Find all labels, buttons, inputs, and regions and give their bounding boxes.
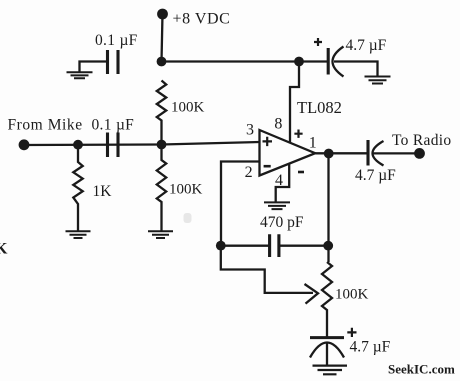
node junction 1K bbox=[73, 140, 83, 150]
capacitor C3 curved plate bbox=[333, 47, 344, 77]
label op-amp V+ mark bbox=[294, 130, 302, 138]
capacitor C2 0.1 uF plates bbox=[108, 133, 119, 158]
node top rail junction A bbox=[157, 57, 167, 67]
ground G6 bbox=[365, 77, 391, 84]
label op-amp V- mark bbox=[298, 171, 304, 174]
node top rail junction B bbox=[294, 57, 304, 67]
capacitor C1 0.1 uF plates bbox=[108, 50, 119, 74]
svg-text:0.1 µF: 0.1 µF bbox=[92, 117, 135, 134]
resistor R3 100K bbox=[157, 145, 166, 232]
wire cap C1 to ground bbox=[80, 62, 108, 72]
wire wiper path bbox=[221, 246, 313, 293]
capacitor C4 curved plate bbox=[373, 141, 384, 166]
svg-text:100K: 100K bbox=[169, 182, 203, 198]
label C5 plus bbox=[347, 328, 356, 337]
capacitor C6 470 pF plates bbox=[270, 234, 279, 257]
node feedback left junction bbox=[216, 241, 226, 251]
wire C4 to radio terminal bbox=[374, 152, 417, 154]
ground G1 bbox=[67, 72, 93, 78]
svg-text:0.1 µF: 0.1 µF bbox=[95, 32, 138, 49]
svg-text:K: K bbox=[0, 241, 8, 258]
node feedback junction bbox=[323, 241, 333, 251]
svg-text:470 pF: 470 pF bbox=[260, 214, 304, 231]
svg-text:4.7 µF: 4.7 µF bbox=[355, 167, 396, 184]
wire +8VDC down to top rail bbox=[162, 14, 163, 62]
wire output bbox=[315, 152, 368, 154]
svg-text:3: 3 bbox=[246, 122, 254, 139]
capacitor C5 4.7uF flat plate bbox=[310, 336, 344, 339]
wire feedback vertical bbox=[327, 154, 329, 263]
ground G3 bbox=[148, 231, 173, 238]
label op-amp noninverting + bbox=[263, 137, 273, 146]
svg-text:1K: 1K bbox=[93, 183, 113, 200]
wire C5 stem to ground bbox=[326, 343, 328, 365]
svg-text:From Mike: From Mike bbox=[8, 117, 83, 134]
svg-text:100K: 100K bbox=[171, 100, 205, 116]
capacitor C4 4.7uF flat plate bbox=[366, 140, 369, 166]
wire input row bbox=[24, 142, 260, 145]
svg-text:TL082: TL082 bbox=[297, 98, 342, 117]
svg-text:2: 2 bbox=[245, 164, 253, 181]
wire top rail right bbox=[162, 60, 329, 62]
svg-text:+8 VDC: +8 VDC bbox=[173, 11, 231, 28]
svg-text:SeekIC.com: SeekIC.com bbox=[388, 362, 455, 377]
label op-amp inverting - bbox=[264, 165, 271, 168]
label C3 plus bbox=[314, 38, 322, 46]
ground G4 bbox=[264, 202, 290, 209]
wire 470pF right bbox=[279, 245, 329, 247]
svg-text:100K: 100K bbox=[335, 287, 369, 303]
svg-text:4.7 µF: 4.7 µF bbox=[350, 339, 391, 356]
op-amp U1 triangle bbox=[260, 130, 316, 176]
node +8 VDC terminal bbox=[157, 9, 168, 20]
wiper arrowhead bbox=[305, 284, 319, 304]
resistor R4 100K pot bbox=[322, 262, 332, 337]
ground G2 bbox=[66, 231, 91, 238]
node output junction bbox=[324, 149, 334, 159]
ground G5 bbox=[313, 366, 348, 375]
svg-text:8: 8 bbox=[274, 116, 282, 133]
wire C3 to ground bbox=[334, 62, 378, 76]
node To Radio terminal bbox=[414, 148, 425, 159]
wire pin 4 to ground bbox=[276, 164, 290, 202]
wire pin 2 feedback left bbox=[221, 162, 260, 246]
resistor R2 1K bbox=[73, 145, 82, 232]
wire pin 8 supply bbox=[290, 62, 299, 143]
svg-text:4.7 µF: 4.7 µF bbox=[346, 37, 387, 54]
node junction 100K bbox=[157, 140, 167, 150]
svg-text:To Radio: To Radio bbox=[392, 132, 451, 149]
wire 470pF left bbox=[221, 245, 270, 247]
node input terminal bbox=[19, 139, 30, 150]
resistor R1 100K bbox=[157, 81, 166, 145]
capacitor C3 4.7uF flat plate bbox=[327, 48, 330, 75]
capacitor C5 curved plate bbox=[310, 343, 344, 358]
svg-text:1: 1 bbox=[309, 135, 317, 152]
svg-text:4: 4 bbox=[275, 172, 283, 189]
